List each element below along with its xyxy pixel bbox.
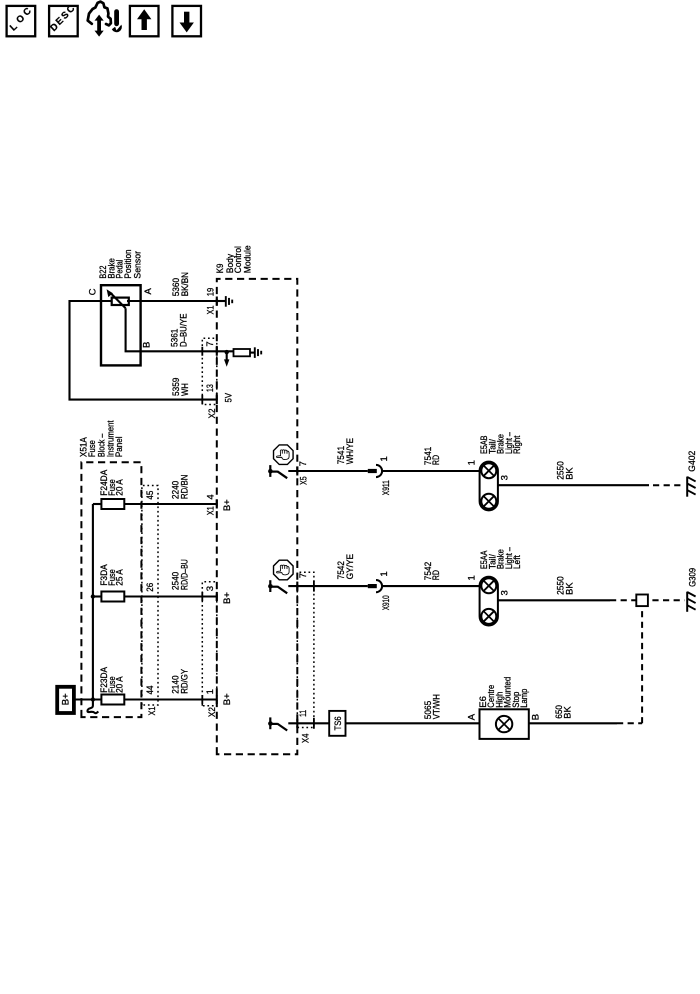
svg-text:Lamp: Lamp	[519, 689, 530, 708]
wire 650 BK lamp E6 to splice	[529, 606, 642, 723]
svg-text:7: 7	[298, 461, 309, 466]
fuse F24DA	[101, 499, 124, 509]
svg-text:4: 4	[206, 494, 217, 499]
svg-text:X1: X1	[206, 306, 217, 315]
fuse block connector X1 dotted box	[142, 486, 158, 706]
BCM connector X2 dotted box (pins 7,13)	[202, 338, 217, 404]
toolbar icon wrench	[112, 9, 122, 32]
svg-text:1: 1	[466, 575, 477, 580]
svg-text:11: 11	[298, 710, 309, 717]
svg-text:X1: X1	[147, 707, 158, 716]
label 7541 RD	[423, 447, 442, 465]
wire 2550 BK lamp E5AB to G402	[498, 484, 685, 486]
svg-text:44: 44	[145, 686, 156, 695]
svg-text:20 A: 20 A	[114, 479, 125, 496]
toolbar button DESC	[48, 3, 77, 36]
junction rail/B+ wire	[91, 697, 95, 701]
svg-text:RD/D–BU: RD/D–BU	[180, 559, 191, 590]
svg-text:B+: B+	[222, 592, 233, 604]
wire 2540 RD/D-BU fuse F3DA to BCM pin 3	[124, 595, 217, 597]
svg-text:Left: Left	[512, 555, 523, 569]
svg-text:19: 19	[206, 288, 217, 297]
switch driver row3	[268, 717, 287, 730]
svg-text:X2: X2	[207, 707, 218, 717]
svg-text:X1: X1	[206, 506, 217, 515]
svg-text:B: B	[531, 714, 542, 720]
svg-text:5V: 5V	[223, 392, 234, 402]
svg-text:20 A: 20 A	[114, 676, 125, 693]
wire 7541 WH/YE BCM X5-7 to X911	[288, 470, 368, 472]
svg-text:WH/YE: WH/YE	[345, 438, 356, 464]
BCM internal ground at pin 19	[217, 296, 232, 307]
svg-text:VT/WH: VT/WH	[431, 694, 442, 719]
svg-text:X4: X4	[301, 734, 312, 744]
svg-text:RD: RD	[431, 455, 442, 465]
potentiometer resistor element	[112, 298, 129, 305]
svg-text:25 A: 25 A	[114, 569, 125, 586]
lamp E5AA tail/brake left	[480, 577, 498, 626]
BCM connector X2 dotted box (pins 3,1)	[202, 582, 217, 706]
svg-text:Right: Right	[512, 435, 523, 454]
svg-text:BK/BN: BK/BN	[180, 272, 191, 296]
label 5360 BK/BN	[171, 272, 191, 296]
wire 5361 D-BU/YE sensor B to BCM pin 7	[141, 350, 217, 352]
svg-text:A: A	[143, 288, 154, 295]
label 5359 WH	[171, 378, 191, 396]
label K9 Body Control Module	[215, 245, 253, 273]
svg-text:C: C	[87, 288, 98, 295]
svg-text:1: 1	[379, 456, 390, 461]
wire 2550 BK lamp E5AA to G309	[498, 599, 685, 601]
label 2540 RD/D-BU	[170, 559, 190, 590]
svg-text:GY/YE: GY/YE	[345, 554, 356, 580]
svg-text:Module: Module	[242, 245, 253, 273]
label E6 Centre High Mounted Stop Lamp	[478, 677, 530, 708]
svg-text:RD/GY: RD/GY	[180, 668, 191, 694]
svg-text:WH: WH	[180, 383, 191, 396]
svg-text:B+: B+	[222, 693, 233, 705]
label F3DA Fuse 25 A	[99, 564, 125, 586]
junction at pin 7 sense point	[225, 350, 229, 354]
fuse block label X51A Fuse Block - Instrument Panel	[79, 420, 125, 457]
signal arrow at pin 7	[224, 352, 229, 367]
wire 5V supply link (sensor C to BCM 13 top run)	[70, 301, 217, 400]
label 5065 VT/WH	[423, 694, 442, 719]
svg-text:Sensor: Sensor	[132, 251, 143, 279]
splice node square	[636, 595, 648, 607]
driver control icon row2 (octagon hand)	[274, 560, 294, 580]
label 7542 GY/YE	[336, 554, 356, 580]
lamp E5AB tail/brake right	[480, 462, 498, 511]
label 7541 WH/YE	[336, 438, 356, 464]
fuse block X51A dashed box	[81, 462, 141, 717]
label 5361 D-BU/YE	[169, 314, 189, 347]
label F23DA Fuse 20 A	[99, 666, 125, 693]
toolbar button LOC	[7, 6, 36, 37]
svg-text:X911: X911	[381, 480, 392, 495]
junction rail/F3DA wire	[91, 594, 95, 598]
label B22 Brake Pedal Position Sensor	[98, 249, 143, 278]
svg-text:3: 3	[500, 475, 511, 480]
svg-text:1: 1	[466, 460, 477, 465]
svg-text:7: 7	[298, 573, 309, 578]
wire 7542 RD X910 to lamp E5AA	[382, 585, 480, 587]
fuse F23DA	[101, 695, 124, 705]
svg-text:G402: G402	[687, 451, 698, 472]
pin ticks connector X2 outer edge	[201, 347, 203, 704]
inline connector X911	[368, 465, 382, 477]
label 2140 RD/GY	[170, 668, 190, 694]
wire BCM X4-11 to TS6	[288, 722, 329, 724]
label 2550 BK (row1)	[555, 461, 575, 480]
driver control icon row1 (octagon hand)	[274, 445, 294, 465]
svg-text:BK: BK	[562, 706, 573, 719]
wire rail drop to F3DA	[93, 595, 102, 597]
svg-text:RD/BN: RD/BN	[180, 474, 191, 499]
svg-text:D–BU/YE: D–BU/YE	[178, 314, 189, 347]
svg-text:X5: X5	[299, 476, 310, 485]
label 7542 RD	[423, 562, 442, 580]
sensor B22 box	[101, 285, 141, 365]
svg-text:X910: X910	[381, 595, 392, 610]
wiper wire to pin B	[126, 308, 141, 351]
pin ticks BCM top connectors	[216, 297, 218, 705]
battery feed B+ terminal	[57, 687, 74, 713]
svg-text:1: 1	[379, 571, 390, 576]
wire 7541 RD X911 to lamp E5AB	[382, 470, 480, 472]
svg-text:X2: X2	[207, 409, 218, 419]
label 2550 BK (row2)	[555, 576, 575, 595]
svg-text:BK: BK	[565, 582, 576, 595]
svg-text:G309: G309	[688, 568, 699, 587]
svg-text:TS6: TS6	[333, 716, 344, 730]
svg-text:3: 3	[500, 590, 511, 595]
switch driver row1	[268, 465, 287, 478]
label F24DA Fuse 20 A	[99, 469, 125, 496]
svg-text:Panel: Panel	[114, 437, 125, 458]
pin ticks BCM bottom connectors	[296, 467, 298, 728]
label 650 BK	[554, 705, 574, 719]
label E5AB Tail/Brake Light - Right	[479, 431, 523, 454]
wire rail stub to other circuits (curl)	[87, 700, 98, 714]
ground G309	[687, 592, 695, 612]
svg-text:1: 1	[205, 689, 216, 694]
body control module K9 dashed box	[217, 279, 297, 754]
wire 7542 GY/YE BCM X4-7 to X910	[288, 585, 368, 587]
toolbar button arrow-down	[172, 6, 201, 36]
toolbar button arrow-up	[130, 6, 159, 36]
wire 2240 RD/BN fuse F24DA to BCM pin 4	[124, 503, 217, 505]
stop lamp E6 box	[480, 709, 529, 739]
BCM internal ground below resistor	[250, 347, 261, 358]
svg-text:45: 45	[145, 491, 156, 500]
pull-up resistor inside BCM	[234, 349, 251, 356]
svg-text:26: 26	[145, 583, 156, 592]
BCM internal wire pin 7 to resistor	[217, 350, 234, 352]
label 2240 RD/BN	[170, 474, 190, 499]
BCM connector X4 dotted box (pins 7,11)	[297, 572, 314, 727]
in-line unit TS6 box	[329, 711, 345, 736]
svg-text:RD: RD	[431, 570, 442, 580]
svg-text:B+: B+	[61, 693, 72, 705]
toolbar icon vehicle outline	[88, 2, 111, 26]
pin ticks connector X4 outer edge	[313, 581, 315, 729]
toolbar icon up-down arrow	[95, 15, 104, 37]
svg-text:BK: BK	[565, 467, 576, 480]
svg-text:7: 7	[205, 341, 216, 346]
fuse F3DA	[101, 592, 124, 602]
potentiometer arrow	[107, 289, 126, 308]
wire 2140 RD/GY fuse F23DA to BCM pin 1	[124, 698, 217, 700]
wire 5360 BK/BN sensor A to BCM pin 19	[127, 300, 217, 302]
svg-text:3: 3	[205, 586, 216, 591]
svg-text:B: B	[141, 342, 152, 348]
inline connector X910	[368, 580, 382, 592]
switch driver row2	[268, 580, 287, 593]
svg-text:A: A	[467, 713, 478, 720]
svg-text:13: 13	[205, 384, 216, 392]
wire B+ distribution rail	[92, 504, 94, 700]
svg-text:B+: B+	[222, 499, 233, 511]
wire B+ to fuse block	[75, 698, 102, 700]
wire rail drop to F24DA	[93, 503, 102, 505]
ground G402	[687, 477, 695, 497]
label E5AA Tail/Brake Light - Left	[479, 547, 523, 570]
wire 5065 VT/WH TS6 to lamp E6	[346, 722, 480, 724]
